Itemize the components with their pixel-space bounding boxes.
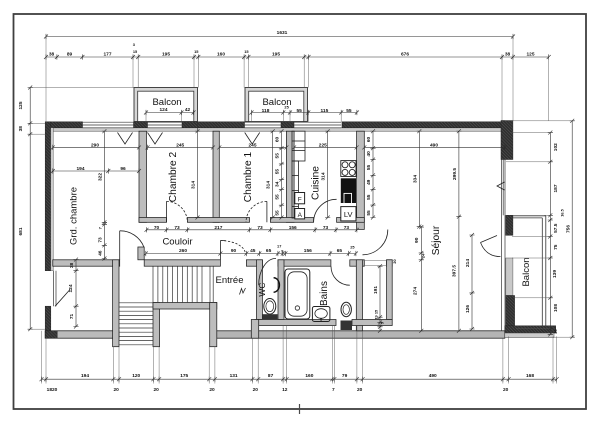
svg-text:676: 676 (401, 51, 409, 57)
dim line balcony2/cuisine window (252, 112, 357, 114)
bathtub (285, 269, 310, 319)
right exterior wall dark segment top corner (501, 121, 513, 160)
top exterior wall hatched segment E (342, 122, 503, 128)
svg-text:274: 274 (413, 287, 419, 295)
door sejour-balcony leaf (481, 236, 498, 243)
couloir bottom wall segment left (53, 260, 120, 266)
door bains arc (331, 266, 350, 285)
stove 4 burners (341, 161, 356, 177)
top exterior wall inner finish band (48, 128, 504, 131)
svg-text:65: 65 (337, 248, 343, 254)
bath bottom wall right part (352, 320, 392, 326)
svg-text:118: 118 (262, 108, 270, 114)
window W4 cuisine (294, 122, 341, 128)
closet top wall segment (387, 260, 393, 266)
svg-text:299.5: 299.5 (452, 168, 458, 180)
svg-text:20: 20 (209, 387, 215, 393)
svg-text:125: 125 (526, 51, 534, 57)
door chambre1 arc (246, 201, 267, 222)
svg-text:490: 490 (430, 142, 438, 148)
door grd chambre arc (120, 231, 144, 247)
svg-text:217: 217 (214, 225, 222, 231)
stair/entree rail double line (210, 266, 213, 302)
dim line overall 1631 (46, 36, 513, 38)
svg-text:177: 177 (103, 51, 111, 57)
window W3 balcony2 (245, 122, 282, 128)
stair U wall left leg (153, 303, 160, 347)
svg-text:49: 49 (366, 179, 372, 185)
svg-text:334: 334 (412, 175, 418, 183)
dim chain left inner 46/38/124/71 (75, 260, 77, 327)
door chambre1 leaf (266, 201, 268, 222)
grd chambre bottom wall (45, 331, 119, 338)
dim chain sejour door 90/24/274 (420, 227, 422, 331)
right balcony bottom hatched wall (505, 326, 556, 333)
right balcony top rail (512, 216, 546, 218)
door grd chambre leaf (119, 231, 121, 260)
svg-text:115: 115 (321, 108, 329, 114)
svg-text:73: 73 (323, 225, 329, 231)
corridor top wall segment 4 (337, 218, 365, 223)
svg-text:WC: WC (257, 282, 267, 296)
wall wc / bains (278, 260, 284, 320)
svg-text:Grd. chambre: Grd. chambre (69, 187, 80, 245)
svg-text:1820: 1820 (47, 387, 58, 393)
svg-text:108: 108 (553, 304, 559, 312)
bath bottom wall left part (255, 320, 336, 326)
bath top wall segment 2 (350, 260, 365, 266)
svg-text:397.5: 397.5 (452, 265, 458, 277)
svg-text:314: 314 (321, 172, 327, 180)
french window V mark 3 (245, 133, 260, 145)
dim line 314 cuisine (327, 131, 329, 217)
svg-text:46: 46 (98, 250, 104, 256)
stairs upper flight treads (153, 266, 202, 302)
stair U wall right leg (210, 303, 217, 347)
svg-text:20: 20 (392, 259, 397, 263)
svg-text:20: 20 (114, 387, 120, 393)
dim chain right (549, 133, 551, 335)
svg-text:168: 168 (526, 373, 534, 379)
svg-text:90: 90 (231, 248, 237, 254)
svg-text:Bains: Bains (319, 281, 330, 306)
left exterior wall upper dark segment (45, 122, 51, 271)
svg-text:175: 175 (180, 373, 188, 379)
couloir bottom wall segment right of entrance (246, 260, 262, 266)
couloir bottom wall segment mid (144, 260, 220, 266)
dim line grd chambre 194/96 (53, 170, 139, 172)
left exterior wall finish band (51, 128, 53, 271)
svg-text:7: 7 (98, 227, 103, 229)
svg-text:90: 90 (414, 237, 420, 243)
door chambre2 leaf (166, 201, 168, 222)
svg-text:245: 245 (248, 142, 256, 148)
dim chain couloir/entree (146, 253, 356, 255)
bidet (341, 302, 351, 316)
svg-text:225: 225 (319, 142, 327, 148)
entrance door arc (220, 241, 245, 254)
svg-text:124: 124 (159, 107, 167, 113)
svg-text:42: 42 (185, 107, 191, 113)
grd chambre bottom wall dark corner (45, 331, 57, 338)
dim chain corridor doors (147, 229, 357, 231)
niche step wall (251, 320, 258, 339)
svg-text:195: 195 (162, 51, 170, 57)
wall entree / wc (257, 260, 263, 320)
wc corner washbasin (274, 278, 280, 292)
svg-text:F: F (298, 196, 302, 203)
top exterior wall hatched segment C (182, 122, 245, 128)
svg-text:55: 55 (366, 194, 372, 200)
closet opening threshold lines (363, 260, 387, 265)
svg-text:89: 89 (67, 51, 73, 57)
svg-text:20: 20 (154, 387, 160, 393)
sejour east window V mark (497, 182, 505, 190)
french window V mark 2 (148, 133, 163, 145)
wc toilet (264, 299, 276, 315)
right exterior wall dark segment bottom (506, 296, 515, 331)
svg-text:87: 87 (268, 373, 274, 379)
svg-text:20: 20 (553, 329, 558, 333)
svg-text:314: 314 (191, 181, 197, 189)
right balcony bottom finish band (505, 333, 554, 338)
LV box (341, 207, 356, 221)
stairwell left wall (113, 260, 119, 347)
svg-text:70: 70 (154, 225, 160, 231)
svg-text:38: 38 (505, 51, 511, 57)
svg-text:1631: 1631 (277, 30, 288, 36)
svg-text:38: 38 (18, 126, 24, 132)
svg-text:55: 55 (366, 210, 372, 216)
right exterior wall dark segment mid (506, 215, 513, 235)
left wall window (54, 271, 57, 307)
door sejour arc (363, 230, 388, 255)
svg-text:314: 314 (266, 181, 272, 189)
dim line right overall 756 (571, 121, 573, 337)
svg-text:55: 55 (275, 169, 281, 175)
svg-text:79: 79 (342, 373, 348, 379)
svg-text:73: 73 (344, 225, 350, 231)
dim chain cuisine left (281, 131, 283, 217)
svg-text:45: 45 (250, 248, 256, 254)
door wc arc (259, 258, 276, 285)
svg-text:Balcon: Balcon (521, 257, 532, 286)
svg-text:194: 194 (81, 373, 89, 379)
door chambre2 arc (167, 201, 188, 222)
bottom center tick on frame (299, 404, 301, 414)
svg-text:Chambre 2: Chambre 2 (168, 151, 179, 202)
svg-text:Couloir: Couloir (162, 236, 192, 247)
couloir wall stub at grd chambre door (138, 247, 144, 260)
svg-text:102: 102 (553, 143, 559, 151)
corridor top wall segment 3 (270, 218, 313, 223)
french window V mark 1 (118, 133, 133, 145)
svg-text:40: 40 (366, 151, 372, 157)
svg-text:245: 245 (176, 142, 184, 148)
svg-text:60: 60 (275, 137, 281, 143)
svg-text:160: 160 (305, 373, 313, 379)
extension lines (30, 37, 572, 384)
svg-text:Chambre 1: Chambre 1 (243, 151, 254, 202)
svg-text:60: 60 (366, 137, 372, 143)
dim chain bottom (42, 378, 557, 380)
svg-text:139: 139 (552, 270, 558, 278)
left window casement diagonal (55, 290, 70, 307)
svg-text:73: 73 (257, 225, 263, 231)
svg-text:131: 131 (230, 373, 238, 379)
svg-text:20: 20 (357, 387, 363, 393)
wall closet / sejour (387, 260, 393, 320)
svg-text:156: 156 (304, 248, 312, 254)
left exterior wall lower dark segment (45, 306, 51, 338)
door cuisine arc (314, 199, 337, 222)
corridor top wall segment 2 (187, 218, 249, 223)
svg-text:73: 73 (174, 225, 180, 231)
interior wall chambre1 / cuisine (286, 131, 294, 222)
corridor top wall segment 1 (139, 218, 167, 223)
dim chain balcony right inner 214/126 (471, 235, 473, 329)
dim chain left inner 7/73 (103, 222, 105, 259)
svg-text:290: 290 (91, 142, 99, 148)
dim line 191 closet (379, 266, 381, 331)
svg-text:490: 490 (429, 373, 437, 379)
svg-text:75: 75 (553, 244, 559, 250)
kitchen counter (292, 131, 305, 218)
svg-text:Entrée: Entrée (216, 275, 244, 286)
svg-text:260: 260 (179, 248, 187, 254)
svg-text:214: 214 (465, 259, 471, 267)
bidet tank (341, 321, 353, 331)
svg-text:681: 681 (18, 227, 24, 235)
svg-text:126: 126 (465, 305, 471, 313)
svg-text:55: 55 (297, 108, 303, 114)
stairs lower flight treads (119, 303, 153, 345)
svg-text:16.5: 16.5 (560, 208, 565, 216)
window W1 grd chambre (83, 122, 134, 128)
dim line 322 grd chambre (103, 131, 105, 222)
svg-text:55: 55 (346, 108, 352, 114)
svg-text:Cuisine: Cuisine (311, 166, 322, 200)
door sejour-balcony arc (481, 243, 501, 257)
svg-text:195: 195 (272, 51, 280, 57)
F box (295, 193, 305, 204)
svg-text:120: 120 (132, 373, 140, 379)
window W2 balcony1 (148, 122, 183, 128)
dim line 299.5/397.5 sejour (458, 131, 460, 331)
svg-text:20: 20 (503, 387, 509, 393)
svg-text:73: 73 (98, 237, 104, 243)
svg-text:160: 160 (217, 51, 225, 57)
A box (295, 209, 305, 219)
svg-text:124: 124 (68, 284, 74, 292)
balcony 1 top-left walls (134, 88, 198, 122)
dim chain left outer (29, 88, 31, 330)
svg-text:71: 71 (69, 314, 75, 320)
svg-text:55: 55 (275, 194, 281, 200)
svg-text:322: 322 (98, 173, 104, 181)
svg-text:57.5: 57.5 (553, 223, 559, 233)
wc toilet tank (263, 314, 278, 319)
svg-text:96: 96 (120, 166, 126, 172)
right balcony right rail (542, 216, 546, 326)
dim lines room widths (53, 146, 139, 148)
stair U wall top bar (153, 303, 217, 310)
top exterior wall hatched segment D (281, 122, 294, 128)
svg-text:12: 12 (282, 387, 288, 393)
svg-text:38: 38 (69, 263, 75, 269)
svg-text:65: 65 (266, 248, 272, 254)
svg-text:34: 34 (275, 181, 281, 187)
dim line 314 chambre2 (197, 122, 199, 218)
interior wall grd.chambre / chambre2 (139, 131, 147, 222)
top exterior wall hatched segment A (48, 122, 83, 128)
top exterior wall hatched segment B (134, 122, 148, 128)
entrance door leaf (219, 241, 221, 260)
interior wall cuisine / sejour (357, 131, 365, 229)
svg-text:20: 20 (253, 387, 259, 393)
dimension number labels (18, 30, 571, 393)
interior wall chambre2 / chambre1 (213, 131, 219, 222)
main bottom wall entree/bains/sejour (213, 331, 505, 338)
right wall window upper (501, 160, 505, 331)
svg-text:7: 7 (332, 387, 335, 393)
svg-text:Séjour: Séjour (431, 225, 442, 255)
bains washbasin (312, 307, 330, 322)
svg-text:55: 55 (366, 165, 372, 171)
dim line balcony1 (146, 112, 194, 114)
svg-text:A: A (298, 212, 303, 219)
dim chain top facade (46, 56, 549, 58)
svg-text:LV: LV (344, 210, 353, 219)
svg-text:125: 125 (18, 101, 24, 109)
svg-text:55: 55 (275, 210, 281, 216)
svg-text:194: 194 (76, 166, 84, 172)
oven black (341, 178, 356, 203)
wall bains / closet (356, 260, 362, 331)
svg-text:38: 38 (49, 51, 55, 57)
dim line 334 sejour (418, 131, 420, 226)
svg-text:55: 55 (275, 153, 281, 159)
dim chain cuisine right (372, 131, 374, 217)
dim line 314 chambre1 (272, 131, 274, 217)
entree zigzag mark (240, 288, 246, 295)
svg-text:187: 187 (553, 184, 559, 192)
balcony 2 top walls (245, 88, 308, 122)
right wall balcony parapet gray (506, 258, 513, 296)
dimension line layer (28, 34, 575, 382)
bath top wall segment (278, 260, 331, 266)
svg-text:156: 156 (289, 225, 297, 231)
svg-text:191: 191 (373, 286, 379, 294)
svg-text:756: 756 (565, 225, 571, 233)
svg-text:Balcon: Balcon (152, 97, 181, 108)
